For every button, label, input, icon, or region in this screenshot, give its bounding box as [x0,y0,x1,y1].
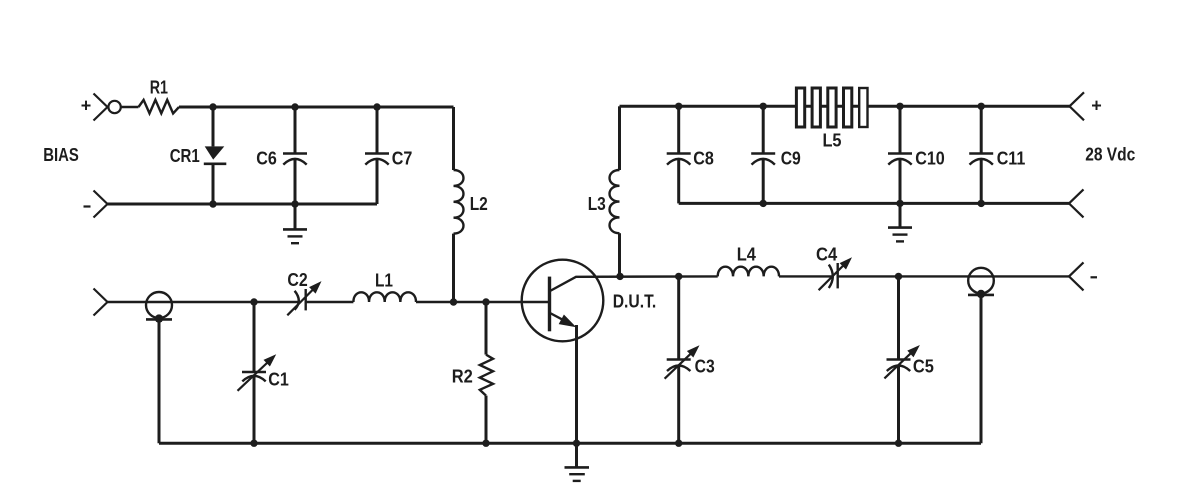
svg-text:28 Vdc: 28 Vdc [1085,145,1135,165]
svg-text:L4: L4 [737,244,756,264]
svg-text:D.U.T.: D.U.T. [613,292,657,312]
capacitor C6 [283,107,307,204]
transistor collector lead and RF line to C4 [550,276,718,291]
connector circle terminal [108,101,120,113]
svg-text:L3: L3 [588,194,606,214]
connector output + arrow [1070,92,1085,120]
junction dots RF output line [616,273,623,280]
capacitor C7 [365,107,389,204]
wire bottom-left bias rail [108,203,378,206]
transistor Q1 D.U.T. circle [522,260,604,342]
connector output return arrow [1069,189,1084,217]
wire L3 top lead [618,106,621,170]
node - (RF output label) [1091,276,1098,278]
wire L3 bottom lead [618,233,621,276]
wire L4 to C4 [779,275,832,277]
svg-text:R1: R1 [150,78,168,98]
svg-text:L1: L1 [375,270,393,290]
svg-text:L2: L2 [470,194,488,214]
svg-text:C3: C3 [695,357,715,377]
inductor L1 [353,292,416,302]
svg-text:+: + [1091,96,1102,116]
transistor base bar [548,277,551,332]
svg-text:C2: C2 [287,270,307,290]
connector input + arrow [94,94,108,121]
node - (bias input label) [84,205,91,207]
connector RF input arrow [94,289,108,316]
capacitor C5 (variable) [884,276,920,443]
junction dot L2 tap [450,298,457,305]
svg-text:C4: C4 [816,245,837,265]
junction dots top-right rail [675,103,682,110]
wire RF input line [108,301,298,303]
svg-text:L5: L5 [822,131,841,151]
wire bottom-right bias rail [679,202,1069,205]
svg-text:C1: C1 [268,370,289,390]
inductor L3 [610,170,620,233]
junction dots bottom rail [250,440,257,447]
svg-text:C11: C11 [997,149,1026,169]
junction dots bottom-left rail [209,200,216,207]
svg-text:R2: R2 [452,366,473,386]
diode CR1 [204,107,227,204]
connector feedthrough right (circle) [968,268,994,443]
wire top-right bias rail [620,105,1070,108]
junction dots top-left rail [209,103,216,110]
junction dot C1 tap [250,298,257,305]
svg-text:C5: C5 [913,357,934,377]
inductor L4 [718,267,779,277]
wire bottom ground rail [159,442,981,445]
resistor R1 [139,100,180,114]
transistor emitter lead [550,313,577,467]
capacitor C4 (variable, series) [819,257,852,290]
svg-text:BIAS: BIAS [43,145,79,165]
inductor L5 (stripline) [796,88,867,127]
svg-text:C7: C7 [392,149,413,169]
ground below C10 [888,203,912,241]
wire L1 to transistor base [416,301,548,303]
wire C4 to output connector [838,275,1069,277]
capacitor C10 [888,106,912,203]
wire circle to R1 [121,106,139,108]
svg-text:C6: C6 [256,149,277,169]
ground below C6 [283,204,307,243]
capacitor C11 [969,106,993,203]
ground below emitter [565,467,590,481]
svg-text:C9: C9 [781,149,801,169]
capacitor C8 [667,106,691,203]
junction dot R2 tap [482,298,489,305]
junction dots bottom-right rail [760,200,767,207]
inductor L2 [454,170,464,234]
connector feedthrough left (circle) [146,292,172,443]
capacitor C3 (variable) [665,276,700,443]
capacitor C2 (variable, series) [287,281,321,315]
wire L2 bottom lead [452,234,455,302]
connector input - arrow [94,191,108,218]
svg-text:C10: C10 [915,149,945,169]
svg-text:CR1: CR1 [170,146,200,166]
wire C2 to L1 [306,301,354,303]
wire top-left bias rail [179,106,454,109]
svg-text:C8: C8 [693,149,714,169]
capacitor C9 [751,106,775,203]
connector RF output arrow [1069,262,1084,290]
resistor R2 [480,302,493,443]
wire L2 top lead [452,107,455,170]
svg-text:+: + [81,96,92,116]
capacitor C1 (variable) [238,302,277,443]
